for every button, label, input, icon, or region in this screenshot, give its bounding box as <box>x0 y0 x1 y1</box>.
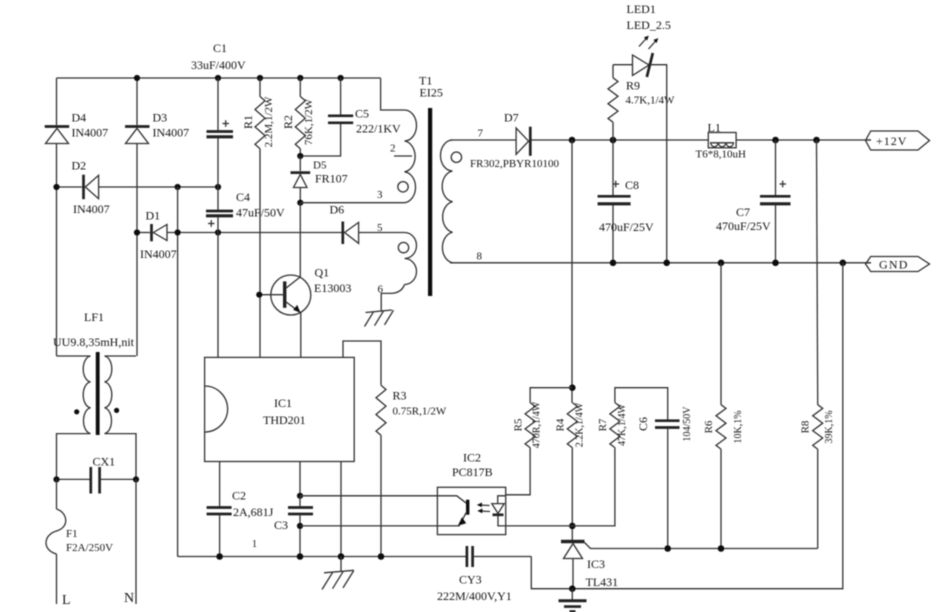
junction GND rail at right return <box>840 260 847 267</box>
polarity + of C8 <box>613 181 620 188</box>
junction ref line at C6 <box>664 545 671 552</box>
svg-text:47K,1/4W: 47K,1/4W <box>617 403 628 446</box>
inductor L1 <box>708 133 736 148</box>
transformer T1 secondary winding 7-8 <box>441 140 453 263</box>
label IC1 <box>274 396 292 410</box>
value D1 IN4007 <box>140 247 177 261</box>
value LED_2.5 <box>627 18 671 32</box>
value C8 470uF/25V <box>599 220 654 234</box>
svg-text:C4: C4 <box>236 190 250 204</box>
junction +12V rail at R9/C8 <box>610 137 617 144</box>
value C1 33uF/400V <box>191 58 246 72</box>
capacitor C3 <box>288 496 313 557</box>
common mode choke LF1 left winding <box>57 356 91 479</box>
junction rail at C5 <box>338 75 344 81</box>
capacitor CX1 <box>57 467 137 494</box>
junction D1 line at x=177 <box>175 229 181 235</box>
value R8 39K,1% (rotated) <box>824 410 835 443</box>
svg-text:R1: R1 <box>241 115 255 129</box>
svg-text:L1: L1 <box>708 121 721 135</box>
svg-text:222M/400V,Y1: 222M/400V,Y1 <box>437 589 512 603</box>
svg-text:39K,1%: 39K,1% <box>824 410 835 443</box>
value R2 76K,1/2W (rotated) <box>303 98 315 145</box>
svg-text:76K,1/2W: 76K,1/2W <box>303 98 315 145</box>
connector tag GND <box>866 257 930 272</box>
capacitor CY3 <box>467 546 531 567</box>
svg-text:L: L <box>62 593 71 608</box>
svg-text:T6*8,10uH: T6*8,10uH <box>696 149 746 161</box>
svg-text:1: 1 <box>252 539 257 550</box>
wire: L input line with fuse <box>56 479 58 604</box>
diode D6 <box>343 222 359 245</box>
pin 2 tap stub <box>394 155 412 157</box>
label R9 <box>626 79 640 93</box>
value R3 0.75R,1/2W <box>393 406 447 418</box>
resistor R5 <box>506 403 535 495</box>
label Q1 <box>315 266 330 280</box>
wire: R4 feed from +12V rail <box>571 140 573 403</box>
value C4 47uF/50V <box>236 206 285 220</box>
svg-text:+12V: +12V <box>876 134 907 148</box>
svg-text:R6: R6 <box>703 420 715 433</box>
svg-text:CY3: CY3 <box>459 573 482 587</box>
T1 aux phase dot <box>398 242 408 252</box>
diode D1 <box>152 224 168 241</box>
junction D2 line at x=177 <box>175 184 181 190</box>
svg-text:104/50V: 104/50V <box>682 406 693 442</box>
label R6 (rotated) <box>703 420 715 433</box>
diode D2 <box>84 175 99 200</box>
wire: pin 7 lead <box>450 139 516 141</box>
label R7 (rotated) <box>597 418 609 431</box>
svg-text:IC1: IC1 <box>274 396 292 410</box>
resistor R9 <box>608 65 618 140</box>
wire: pin 8 lead / secondary ground rail start <box>450 262 871 264</box>
capacitor C4 electrolytic <box>206 187 233 233</box>
value D5 FR107 <box>315 172 348 186</box>
pin label 8 <box>477 251 483 263</box>
junction +12V rail at R8 <box>813 137 820 144</box>
terminal L <box>62 593 71 608</box>
connector tag +12V <box>866 131 930 150</box>
wire: node to transformer pin 3 <box>300 202 404 204</box>
capacitor C1 electrolytic <box>207 78 234 187</box>
resistor R3 <box>376 385 386 435</box>
junction Q1 base <box>256 292 262 298</box>
svg-text:C8: C8 <box>625 178 639 192</box>
svg-text:LF1: LF1 <box>84 310 104 324</box>
svg-text:33uF/400V: 33uF/400V <box>191 58 246 72</box>
label CY3 <box>459 573 482 587</box>
ground (slashed) at bottom rail <box>322 557 354 590</box>
svg-text:5: 5 <box>377 222 383 234</box>
capacitor C6 <box>655 421 680 549</box>
label D3 <box>153 111 168 125</box>
label LF1 <box>84 310 104 324</box>
IC2 phototransistor <box>437 496 469 526</box>
capacitor C7 electrolytic <box>760 140 791 263</box>
svg-text:C7: C7 <box>736 205 750 219</box>
wire: Q1 emitter to IC1 <box>300 313 302 357</box>
svg-text:FR107: FR107 <box>315 172 348 186</box>
label D6 <box>330 203 345 217</box>
junction TL431 anode <box>569 585 576 592</box>
svg-text:EI25: EI25 <box>420 86 443 100</box>
svg-text:R9: R9 <box>626 79 640 93</box>
wire: left line L branch (rail to LF1) <box>56 78 58 356</box>
label IC3 <box>587 557 605 571</box>
IC2 internal LED <box>492 496 506 526</box>
op-amp controller IC1 body <box>205 357 355 461</box>
label C5 <box>355 107 369 121</box>
svg-text:Q1: Q1 <box>315 266 330 280</box>
label C7 <box>736 205 750 219</box>
svg-text:IC2: IC2 <box>463 451 481 465</box>
value IC2 PC817B <box>452 465 493 479</box>
wire: D3 branch (rail to D1 line to LF1) <box>136 78 138 356</box>
svg-text:N: N <box>124 591 134 606</box>
wire: R1 to Q1 base / IC1 pin <box>259 149 261 358</box>
svg-text:D6: D6 <box>330 203 345 217</box>
junction GND rail at R6 <box>718 260 725 267</box>
label C8 <box>625 178 639 192</box>
transformer T1 aux winding 5-6 <box>381 233 416 311</box>
capacitor C8 electrolytic <box>598 140 631 263</box>
svg-text:C3: C3 <box>274 518 288 532</box>
wire: secondary ground return line <box>572 263 843 589</box>
wire: vertical link x=177 down to primary return <box>177 187 179 557</box>
resistor R7 <box>506 403 620 526</box>
diode D7 <box>516 127 530 156</box>
value R7 47K,1/4W (rotated) <box>617 403 628 446</box>
svg-text:CX1: CX1 <box>93 455 116 469</box>
label R1 (rotated) <box>241 115 255 129</box>
pin label 2 <box>390 143 396 155</box>
junction CX1 left <box>53 476 59 482</box>
label R8 (rotated) <box>800 420 812 433</box>
terminal N <box>124 591 134 606</box>
transistor Q1 <box>259 275 311 315</box>
ground (earth) at TL431 <box>559 589 587 612</box>
junction R4/R5 top node <box>569 384 576 391</box>
label D1 <box>146 209 161 223</box>
shunt regulator IC3 TL431 <box>561 542 818 589</box>
svg-text:F1: F1 <box>66 528 78 540</box>
svg-text:LED1: LED1 <box>627 2 656 16</box>
resistor R8 <box>813 140 823 549</box>
svg-text:E13003: E13003 <box>314 281 351 295</box>
wire: opto collector line to IC2 <box>300 495 437 497</box>
svg-text:F2A/250V: F2A/250V <box>66 542 113 554</box>
svg-text:TL431: TL431 <box>586 575 619 589</box>
svg-text:C5: C5 <box>355 107 369 121</box>
svg-text:GND: GND <box>879 258 909 272</box>
label LED1 <box>627 2 656 16</box>
svg-text:IC3: IC3 <box>587 557 605 571</box>
svg-text:D4: D4 <box>72 111 87 125</box>
polarity + of C7 <box>780 181 787 188</box>
fuse F1 <box>46 509 66 554</box>
svg-text:IN4007: IN4007 <box>73 202 110 216</box>
LF1 phase dot left <box>74 409 79 414</box>
wire: R7 top link to C6 <box>615 388 668 421</box>
value C5 222/1KV <box>356 122 401 136</box>
wire: IC1 top pin to R3 jog <box>343 341 381 385</box>
label D7 <box>504 111 519 125</box>
label T1 <box>419 74 432 88</box>
junction bottom rail at C2 <box>216 553 223 560</box>
junction bottom rail at R3 <box>378 553 385 560</box>
common mode choke LF1 core <box>96 352 100 435</box>
value IC3 TL431 <box>586 575 619 589</box>
T1 secondary phase dot <box>451 152 461 162</box>
svg-text:R3: R3 <box>393 389 407 403</box>
wire: D1/D6 line y=232.5 <box>137 232 405 234</box>
svg-text:C1: C1 <box>213 41 227 55</box>
value LF1 UU9.8,35mH,nit <box>53 335 135 349</box>
svg-text:D2: D2 <box>72 159 87 173</box>
svg-text:UU9.8,35mH,nit: UU9.8,35mH,nit <box>53 335 135 349</box>
junction bottom rail at C3 <box>297 553 304 560</box>
pin label 5 <box>377 222 383 234</box>
value C7 470uF/25V <box>716 219 771 233</box>
svg-text:2: 2 <box>390 143 396 155</box>
svg-text:R8: R8 <box>800 420 812 433</box>
pin label 6 <box>378 284 384 296</box>
junction GND rail at C8 <box>610 260 617 267</box>
junction CX1 right <box>133 476 139 482</box>
svg-text:2.2M,1/2W: 2.2M,1/2W <box>263 96 275 147</box>
svg-text:470uF/25V: 470uF/25V <box>599 220 654 234</box>
diode D3 <box>125 127 150 144</box>
svg-text:D1: D1 <box>146 209 161 223</box>
transformer T1 primary winding 2-3 <box>405 110 417 203</box>
value IC1 THD201 <box>263 413 306 427</box>
svg-text:IN4007: IN4007 <box>153 126 190 140</box>
svg-text:3: 3 <box>377 189 383 201</box>
optocoupler IC2 body <box>437 487 505 534</box>
svg-text:D7: D7 <box>504 111 519 125</box>
junction D2 line at C1/C4 <box>215 184 221 190</box>
junction bottom rail at IC1 gnd <box>338 553 345 560</box>
svg-text:0.75R,1/2W: 0.75R,1/2W <box>393 406 447 418</box>
label D5 <box>313 160 327 172</box>
junction C3 bottom / opto emitter line <box>297 523 303 529</box>
wire: IC1 GND pin straight down <box>340 462 342 557</box>
svg-text:R4: R4 <box>555 418 567 431</box>
capacitor C2 <box>207 508 232 557</box>
wire: IC1 FB pin to C3 <box>299 462 301 496</box>
junction D1 line at x=137 <box>134 229 140 235</box>
value CY3 222M/400V,Y1 <box>437 589 512 603</box>
label CX1 <box>93 455 116 469</box>
svg-text:R7: R7 <box>597 418 609 431</box>
value D3 IN4007 <box>153 126 190 140</box>
junction +12V rail at C7 <box>772 137 779 144</box>
svg-text:470R,1/4W: 470R,1/4W <box>532 401 543 448</box>
junction ref line at R6 <box>718 545 725 552</box>
junction R2/C5/D5 node <box>297 153 303 159</box>
wire: primary HV top rail <box>57 77 381 79</box>
svg-text:C6: C6 <box>636 417 650 431</box>
T1 primary phase dot <box>398 182 408 192</box>
wire: opto emitter line to IC2 <box>300 525 437 527</box>
svg-text:LED_2.5: LED_2.5 <box>627 18 671 32</box>
junction D5 anode / Q1 collector / pin3 <box>297 200 303 206</box>
wire: Q1 collector vertical <box>299 203 301 277</box>
resistor R2 <box>295 78 305 156</box>
label C1 <box>213 41 227 55</box>
svg-text:R5: R5 <box>513 418 525 431</box>
value Q1 E13003 <box>314 281 351 295</box>
ground (slashed) at pin 6 <box>365 310 394 327</box>
diode D5 <box>291 156 311 203</box>
value R9 4.7K,1/4W <box>626 95 676 107</box>
value D7 FR302,PBYR10100 <box>470 158 559 170</box>
svg-text:IN4007: IN4007 <box>72 126 109 140</box>
wire: rail drop to transformer pin 2 <box>381 78 405 110</box>
IC2 coupling arrows <box>477 503 490 514</box>
label C3 <box>274 518 288 532</box>
junction rail at R1 <box>257 75 263 81</box>
LED1 emission arrows <box>639 36 658 49</box>
svg-text:D3: D3 <box>153 111 168 125</box>
pin label 3 <box>377 189 383 201</box>
label L1 <box>708 121 721 135</box>
svg-text:470uF/25V: 470uF/25V <box>716 219 771 233</box>
label R4 (rotated) <box>555 418 567 431</box>
label C4 <box>236 190 250 204</box>
svg-text:4.7K,1/4W: 4.7K,1/4W <box>626 95 676 107</box>
pin label 7 <box>478 128 484 140</box>
value L1 T6*8,10uH <box>696 149 746 161</box>
junction C3 top / opto collector line <box>297 493 303 499</box>
transformer T1 core <box>428 108 432 296</box>
LED LED1 <box>613 53 667 263</box>
wire: R3 down to primary return rail <box>380 435 382 556</box>
svg-text:THD201: THD201 <box>263 413 306 427</box>
junction rail at C1 <box>215 75 221 81</box>
label C6 (rotated) <box>636 417 650 431</box>
label D2 <box>72 159 87 173</box>
diode D4 <box>45 127 69 144</box>
wire: CY3 to secondary ground jog <box>531 557 572 589</box>
svg-text:FR302,PBYR10100: FR302,PBYR10100 <box>470 158 559 170</box>
resistor R6 <box>716 263 726 549</box>
junction GND rail at C7 <box>772 260 779 267</box>
value D2 IN4007 <box>73 202 110 216</box>
LF1 phase dot right <box>114 408 119 413</box>
value R5 470R,1/4W (rotated) <box>532 401 543 448</box>
value T1 EI25 <box>420 86 443 100</box>
capacitor C5 <box>300 78 353 156</box>
svg-text:8: 8 <box>477 251 483 263</box>
label IC2 <box>463 451 481 465</box>
svg-text:C2: C2 <box>232 489 246 503</box>
resistor R1 <box>255 78 265 149</box>
resistor R4 <box>567 403 577 541</box>
junction on rail at D3 <box>134 75 140 81</box>
junction GND rail at LED return <box>663 260 670 267</box>
value C2 2A,681J <box>233 505 274 519</box>
junction D2 line left <box>53 184 59 190</box>
svg-text:6: 6 <box>378 284 384 296</box>
value R6 10K,1% (rotated) <box>733 410 744 443</box>
label C2 <box>232 489 246 503</box>
label F1 <box>66 528 78 540</box>
stray mark 1 <box>252 539 257 550</box>
svg-text:2A,681J: 2A,681J <box>233 505 274 519</box>
svg-text:10K,1%: 10K,1% <box>733 410 744 443</box>
svg-text:PC817B: PC817B <box>452 465 493 479</box>
wire: node to R5 <box>530 388 572 403</box>
common mode choke LF1 right winding <box>105 356 137 479</box>
polarity + of C4 <box>208 220 215 227</box>
polarity + of C1 <box>223 120 230 127</box>
svg-text:R2: R2 <box>281 115 295 129</box>
junction TL431 cathode node <box>569 523 576 530</box>
wire: D2 line y=187 <box>57 186 219 188</box>
svg-text:2.2K,1/4W: 2.2K,1/4W <box>575 402 586 447</box>
wire: C4 node down to IC1 VCC pin <box>217 233 219 358</box>
label R3 <box>393 389 407 403</box>
wire: +12V rail <box>531 139 871 141</box>
junction +12V rail at R4 feed <box>569 137 576 144</box>
label R5 (rotated) <box>513 418 525 431</box>
value C6 104/50V (rotated) <box>682 406 693 442</box>
svg-text:IN4007: IN4007 <box>140 247 177 261</box>
value R1 2.2M,1/2W (rotated) <box>263 96 275 147</box>
junction D1 line at C4 <box>215 229 221 235</box>
wire: primary return bottom rail <box>178 556 467 558</box>
junction rail at R2 <box>297 75 303 81</box>
label D4 <box>72 111 87 125</box>
svg-text:222/1KV: 222/1KV <box>356 122 401 136</box>
svg-text:7: 7 <box>478 128 484 140</box>
value R4 2.2K,1/4W (rotated) <box>575 402 586 447</box>
value D4 IN4007 <box>72 126 109 140</box>
svg-text:D5: D5 <box>313 160 327 172</box>
wire: IC1 pin to C2 <box>219 462 221 508</box>
label R2 (rotated) <box>281 115 295 129</box>
wire: N input line <box>135 479 137 604</box>
value F1 F2A/250V <box>66 542 113 554</box>
